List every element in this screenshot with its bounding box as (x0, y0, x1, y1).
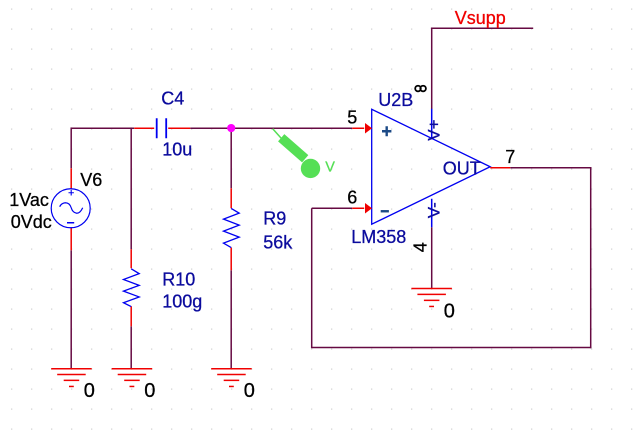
R9 top pin (230, 188, 232, 208)
R9 bottom pin (230, 248, 232, 271)
U2B minus input mark (381, 210, 389, 212)
svg-text:V+: V+ (425, 119, 444, 140)
svg-text:7: 7 (505, 147, 515, 167)
V6 circle body (51, 189, 90, 228)
V6 sine wave (60, 203, 83, 214)
pin 6 stub with arrow (352, 207, 364, 209)
U2B plus input mark (382, 126, 391, 136)
wire: feedback to op-amp pin 6 stub (312, 207, 353, 209)
wire: feedback right vertical (590, 167, 592, 348)
svg-text:0: 0 (244, 380, 255, 402)
wire: R10 branch vertical top (130, 127, 132, 249)
wire: V6 branch vertical top (70, 127, 72, 168)
U2B triangle body (372, 109, 491, 224)
wire: C4 right to op-amp pin 5 stub (190, 127, 352, 129)
svg-text:100g: 100g (162, 291, 202, 311)
svg-text:0Vdc: 0Vdc (11, 212, 52, 232)
svg-text:R9: R9 (263, 208, 286, 228)
wire: Vsupp horizontal (431, 27, 533, 29)
svg-text:0: 0 (144, 380, 155, 402)
V- pin line (431, 199, 433, 228)
V6 minus mark (67, 222, 74, 224)
V6 top pin (70, 168, 72, 189)
svg-text:R10: R10 (162, 269, 195, 289)
svg-text:V-: V- (425, 202, 444, 218)
R9 zigzag (224, 208, 240, 247)
C4 plates (157, 118, 167, 138)
svg-text:0: 0 (444, 300, 455, 322)
C4 right pin (168, 127, 190, 129)
wire: main horizontal net from V6 branch to C4 left pin (71, 127, 134, 129)
wire: output to right (510, 167, 591, 169)
svg-text:Vsupp: Vsupp (455, 8, 506, 28)
ground symbol under V6 (51, 369, 91, 387)
svg-text:10u: 10u (162, 139, 192, 159)
resistor R10 (124, 249, 140, 326)
wire: feedback left vertical (311, 208, 313, 348)
op-amp U2B (352, 109, 510, 228)
svg-text:V6: V6 (80, 170, 102, 190)
pin 5 stub with arrow (352, 127, 364, 129)
svg-text:LM358: LM358 (351, 227, 406, 247)
wire: R10 branch vertical bottom to ground (130, 326, 132, 368)
svg-text:6: 6 (347, 187, 357, 207)
svg-text:1Vac: 1Vac (9, 190, 49, 210)
ground symbol under R9 (211, 369, 252, 387)
svg-text:4: 4 (411, 242, 431, 252)
voltage source V6 (51, 168, 90, 250)
V6 plus mark (69, 190, 74, 195)
V6 bottom pin (70, 227, 72, 250)
junction node (magenta dot) (227, 124, 235, 132)
resistor R9 (224, 188, 240, 270)
svg-text:U2B: U2B (378, 90, 413, 110)
wire: Vsupp vertical down to op-amp V+ pin (431, 28, 433, 109)
capacitor C4 (134, 118, 190, 138)
pin 7 output stub (490, 167, 510, 169)
svg-text:V: V (325, 159, 335, 175)
voltage probe marker (273, 129, 320, 178)
svg-text:5: 5 (347, 107, 357, 127)
svg-text:0: 0 (84, 380, 95, 402)
infinity mark (415, 86, 426, 92)
wire: R9 branch vertical top from junction (230, 127, 232, 188)
V+ pin line (431, 109, 433, 140)
R10 top pin (130, 249, 132, 268)
R10 bottom pin (130, 306, 132, 326)
wire: V6 branch vertical bottom to ground (70, 250, 72, 368)
R10 zigzag (124, 269, 140, 307)
ground symbol under op-amp V- (411, 289, 452, 307)
wire: feedback bottom horizontal (312, 346, 592, 348)
svg-text:C4: C4 (161, 88, 184, 108)
svg-text:56k: 56k (263, 232, 293, 252)
wire: R9 branch vertical bottom to ground (230, 270, 232, 368)
C4 left pin (134, 127, 154, 129)
wire: op-amp V- pin down to ground (431, 227, 433, 288)
ground symbol under R10 (112, 369, 153, 387)
svg-text:OUT: OUT (443, 158, 481, 178)
